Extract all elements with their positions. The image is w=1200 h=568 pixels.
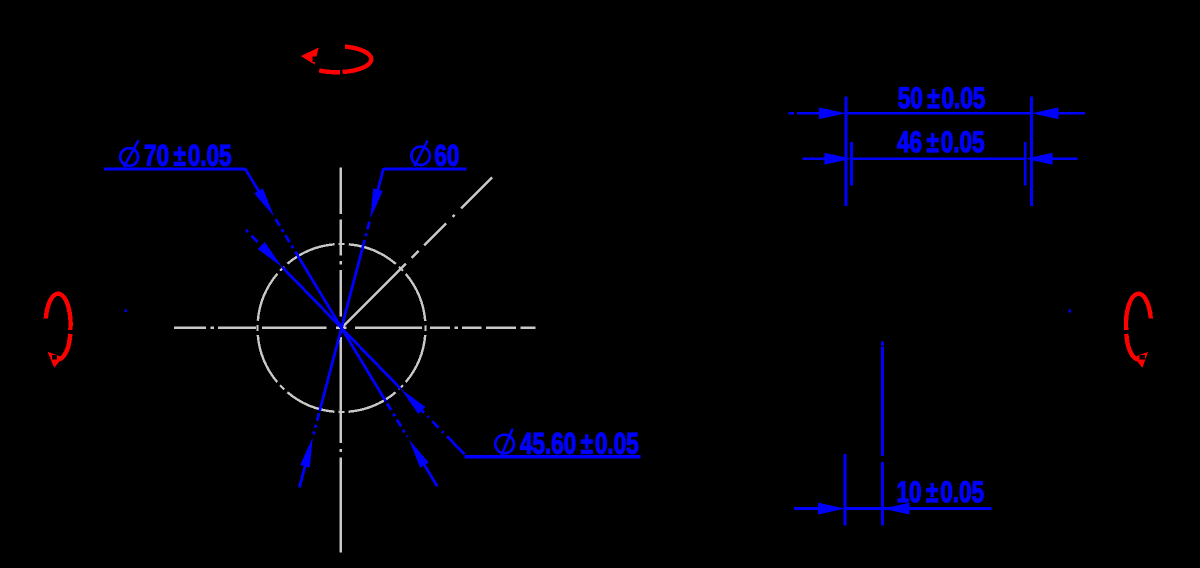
diagonal centerline 45deg up-right [342, 177, 493, 328]
svg-text:60: 60 [434, 138, 459, 172]
vertex dot left [124, 309, 127, 312]
rotation arrow left (view rotate about horizontal) [46, 294, 71, 360]
dimension leader dia70 [104, 167, 245, 170]
svg-text:70±0.05: 70±0.05 [144, 138, 232, 172]
svg-text:10±0.05: 10±0.05 [897, 475, 985, 509]
text dia60 [411, 147, 429, 165]
svg-text:50±0.05: 50±0.05 [898, 81, 986, 115]
text dia70 [120, 148, 138, 166]
text dia45.60 [495, 435, 514, 454]
dimension line 46±0.05 [803, 157, 829, 160]
svg-text:46±0.05: 46±0.05 [897, 125, 985, 159]
dimension line 10±0.05 [794, 507, 824, 510]
bolt circle diam 45.60 (gray dashed) [258, 244, 426, 412]
extension line right (50) [1030, 97, 1033, 207]
left view horizontal centerline [174, 327, 536, 329]
centerline dot above [881, 341, 884, 345]
vertex dot right [1068, 310, 1071, 313]
extension line (10) left [844, 454, 847, 526]
dimension leader dia60 [384, 167, 467, 170]
left view vertical centerline [339, 168, 341, 553]
dimension line 50±0.05 [788, 112, 794, 115]
extension line left (50) [845, 97, 848, 207]
extension line left (46) [850, 142, 853, 186]
rotation arrow right (view rotate about horizontal) [1126, 294, 1151, 360]
rotation arrow top (view rotate about vertical) [319, 47, 371, 73]
extension line right (46) [1024, 142, 1027, 186]
dimension leader dia45.60 [464, 455, 640, 458]
extension/centerline (10) right tall [881, 347, 884, 457]
